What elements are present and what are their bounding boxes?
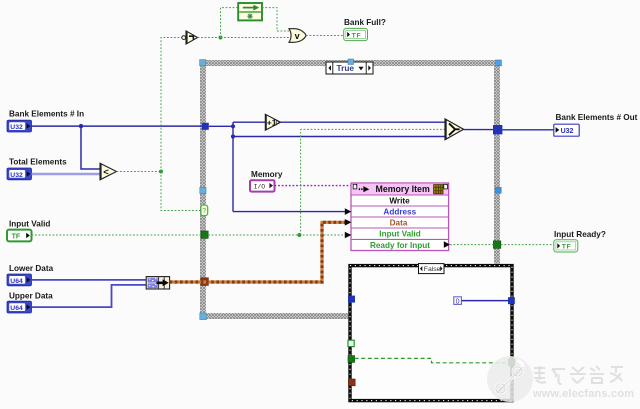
wire Total Elements to comparator (32, 173, 101, 176)
svg-text:Write: Write (389, 196, 410, 205)
bundle header page-corner glyph left (353, 184, 357, 189)
svg-text:Input Ready?: Input Ready? (554, 230, 606, 239)
inner False case structure (stacked, black dashed border) (348, 264, 514, 403)
wire junction up to feedback node (221, 8, 239, 38)
wire memory (purple dotted) to bundle node (275, 185, 352, 187)
outer True case structure border frame (200, 60, 500, 319)
svg-text:www.elecfans.com: www.elecfans.com (532, 388, 634, 400)
svg-text:+1: +1 (267, 118, 277, 128)
svg-text:v: v (295, 31, 300, 41)
svg-text:U64: U64 (10, 305, 23, 312)
svg-text:I/O: I/O (254, 184, 266, 191)
junction (blue) on Bank Elements wire (79, 124, 83, 128)
indicator terminal Bank Elements # Out (U32) (554, 124, 579, 136)
svg-text:Data: Data (390, 219, 408, 228)
wire to select node f input (233, 136, 445, 138)
svg-text:TF: TF (352, 32, 362, 39)
tunnel (blue, False structure left border) (348, 296, 355, 303)
tunnel (light blue, bottom-left corner) (200, 313, 207, 320)
comparator node Less? (<) (100, 163, 117, 180)
case selector terminal [?] (201, 205, 208, 216)
join numbers node (146, 277, 169, 289)
indicator terminal Input Ready? (TF) (554, 240, 578, 252)
feedback node (238, 3, 262, 20)
tunnel (light blue, top-right corner of True structure) (496, 60, 502, 66)
wire junction to OR gate lower input (221, 37, 290, 39)
wire Input Valid boolean to tunnel (32, 234, 202, 236)
svg-text:U32: U32 (10, 172, 23, 179)
control terminal Input Valid (TF) (7, 230, 32, 242)
False case selector label (419, 264, 445, 274)
wire boolean down to case selector (161, 172, 201, 211)
svg-text:Upper Data: Upper Data (9, 292, 53, 301)
bundle input arrow Data (345, 219, 352, 226)
svg-text:Memory: Memory (251, 170, 283, 179)
svg-text:TF: TF (562, 244, 572, 251)
bundle header page-corner glyph right (444, 184, 448, 189)
tunnel (blue, False structure right border) (508, 297, 515, 304)
watermark text (534, 366, 623, 384)
wire to +1 increment input (233, 121, 265, 123)
tunnel (brown, False structure left border) (348, 379, 355, 386)
tunnel (hollow green, False structure left border, unwired) (348, 340, 354, 346)
control terminal Memory (I/O) (250, 180, 275, 191)
junction (blue) at tunnel wire (231, 124, 235, 128)
tunnel (dark green, False structure right border) (508, 359, 514, 366)
wire feedback output to OR gate top input (262, 8, 289, 31)
svg-text:Total Elements: Total Elements (9, 158, 67, 167)
tunnel (dark green, Ready for Input out of structure) (493, 241, 500, 249)
True case selector label (326, 62, 373, 74)
wire vertical branch to +1, select lower input and bundle Address (232, 122, 234, 211)
wire Upper Data to join node lower input (32, 285, 147, 307)
tunnel (brown, Data wire into structure) (201, 278, 209, 286)
bundle input arrow Address (345, 208, 352, 215)
wire comparator output (boolean, dashed green) (117, 171, 162, 173)
svg-text:0: 0 (456, 298, 460, 305)
tunnel (light blue, right border mid, unwired) (495, 187, 501, 193)
bundle output arrow Ready for Input (444, 241, 450, 248)
watermark logo circle (487, 356, 533, 402)
wire boolean up to select s input (301, 129, 445, 235)
wire +1 output to select t input (281, 121, 445, 123)
svg-text:U64: U64 (10, 278, 23, 285)
svg-text:Bank Elements # Out: Bank Elements # Out (556, 113, 638, 122)
wire Input Valid inside structure to bundle (208, 234, 345, 236)
svg-text:U32: U32 (10, 124, 23, 131)
OR gate (289, 29, 306, 43)
tunnel (dark green, Input Valid wire into structure) (201, 231, 208, 238)
bundle header write-arrow glyph (359, 186, 370, 192)
indicator terminal Bank Full? (TF) (344, 28, 368, 40)
numeric constant 0 (454, 297, 462, 306)
svg-text:Memory Item: Memory Item (376, 184, 430, 194)
wire to bundle Address input (233, 211, 345, 213)
svg-text:Bank Elements # In: Bank Elements # In (9, 109, 84, 118)
wire OR output to Bank Full? indicator (306, 35, 344, 37)
wire Bank Elements # In to tunnel (32, 125, 202, 127)
NOT gate (182, 31, 198, 44)
wire branch down to comparator (81, 126, 100, 169)
junction (green) after NOT gate (219, 36, 223, 40)
bundle input arrow Input Valid (345, 232, 352, 239)
select node (445, 119, 464, 140)
svg-text:Bank Full?: Bank Full? (344, 18, 386, 27)
control terminal Lower Data (U64) (7, 274, 32, 286)
svg-text:TF: TF (12, 233, 21, 240)
wire Ready for Input to right tunnel (450, 244, 493, 246)
wire joined data (brown) from join node through tunnel up to bundle Data input (170, 222, 345, 282)
wire select output to right tunnel and out to indicator (464, 129, 493, 131)
junction (green) on comparator output (159, 170, 163, 174)
svg-text:U32: U32 (561, 128, 574, 135)
bundle header memory-grid icon (434, 185, 443, 194)
tunnel (light blue, top-center of True structure) (348, 59, 354, 65)
svg-text:Lower Data: Lower Data (9, 264, 54, 273)
tunnel (dark green, False structure left border) (348, 356, 355, 363)
wire from tunnel to Input Ready? indicator (501, 244, 554, 246)
wire Lower Data to join node (32, 279, 147, 281)
junction (green) on Input Valid wire (297, 233, 301, 237)
tunnel (blue, Bank Elements wire into structure) (202, 123, 209, 130)
svg-text:Address: Address (383, 208, 416, 217)
wire constant 0 to right tunnel (462, 300, 508, 302)
control terminal Upper Data (U64) (7, 301, 32, 313)
wire green dashed inside False structure (355, 358, 509, 362)
svg-text:Ready for Input: Ready for Input (370, 241, 430, 250)
svg-text:Input Valid: Input Valid (9, 220, 50, 229)
wire Bank Elements inside structure: tunnel to junction (209, 125, 233, 127)
svg-text:Input Valid: Input Valid (379, 230, 420, 239)
svg-text:<: < (103, 167, 109, 178)
wire boolean up to NOT gate (161, 38, 182, 172)
control terminal Total Elements (U32) (7, 168, 32, 180)
wire NOT output to junction (198, 37, 221, 39)
svg-text:False: False (424, 266, 441, 273)
increment node +1 (265, 114, 280, 130)
bundle node Memory Item (write) (351, 183, 449, 251)
control terminal Bank Elements # In (U32) (7, 120, 32, 132)
svg-text:?: ? (202, 208, 206, 215)
tunnel (blue, result out of structure right border) (493, 125, 502, 134)
tunnel (light blue, mid left border, unwired) (200, 187, 206, 193)
tunnel (light blue, top-left corner of True structure) (200, 60, 206, 66)
junction (blue) at select branch (231, 134, 235, 138)
